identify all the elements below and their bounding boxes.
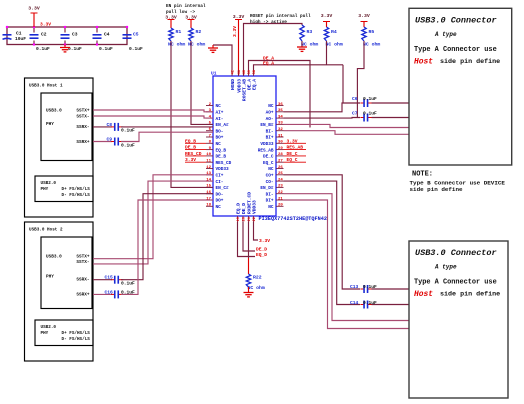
svg-text:USB3.0 Connector: USB3.0 Connector [415,15,497,25]
svg-text:SSRX-: SSRX- [76,278,89,283]
svg-text:R2: R2 [196,29,202,35]
svg-text:VDD33: VDD33 [260,142,274,147]
svg-text:PHY: PHY [41,331,49,336]
svg-text:DO-: DO- [216,192,224,197]
svg-text:0.1uF: 0.1uF [363,284,377,290]
svg-text:20: 20 [278,204,283,208]
svg-text:10uF: 10uF [15,36,26,42]
svg-text:0.1uF: 0.1uF [363,300,377,306]
svg-text:AO+: AO+ [266,111,274,116]
svg-text:C9: C9 [107,137,113,143]
svg-text:EN_B#: EN_B# [260,123,274,128]
svg-text:10: 10 [206,153,211,157]
svg-text:34: 34 [278,115,283,119]
svg-text:C8: C8 [107,122,113,128]
svg-text:R4: R4 [331,29,337,35]
svg-text:high -> active: high -> active [250,20,287,25]
svg-text:PHY: PHY [46,122,54,127]
svg-text:D- FS/HS/LS: D- FS/HS/LS [62,193,91,198]
svg-text:USB3.0 Host 2: USB3.0 Host 2 [29,228,63,233]
svg-text:RES_CD: RES_CD [216,161,232,166]
svg-text:27: 27 [278,160,283,164]
svg-text:0.1uF: 0.1uF [36,46,50,52]
svg-text:SSRX+: SSRX+ [76,140,90,145]
svg-text:HGND: HGND [230,79,236,90]
svg-text:22: 22 [278,191,283,195]
svg-text:DE_D: DE_D [256,247,267,253]
svg-text:3.3V: 3.3V [40,22,51,28]
svg-text:29: 29 [278,147,283,151]
svg-text:C13: C13 [350,284,359,290]
svg-text:0.1uF: 0.1uF [129,46,143,52]
svg-text:42: 42 [232,69,236,74]
svg-text:15: 15 [206,185,211,189]
svg-text:DI-: DI- [266,192,274,197]
svg-text:D+ FS/HS/LS: D+ FS/HS/LS [62,187,91,192]
svg-text:0.1uF: 0.1uF [363,96,377,102]
svg-text:18: 18 [206,204,211,208]
svg-text:VDD33: VDD33 [216,167,230,172]
svg-text:11: 11 [206,160,211,164]
svg-text:A type: A type [434,31,457,38]
svg-text:NC: NC [216,142,222,147]
svg-text:ROSET pin internal pull: ROSET pin internal pull [250,14,311,19]
svg-text:CO-: CO- [266,180,274,185]
svg-text:R1: R1 [176,29,182,35]
svg-text:DO+: DO+ [216,199,224,204]
svg-text:CI+: CI+ [216,174,224,179]
svg-text:RES_CD: RES_CD [185,151,202,157]
svg-text:EQ_B: EQ_B [216,148,227,153]
svg-text:USB3.0 Host 1: USB3.0 Host 1 [29,84,63,89]
svg-text:side pin define: side pin define [440,58,500,66]
svg-text:C15: C15 [105,275,114,281]
svg-text:VDD33: VDD33 [252,200,258,214]
svg-text:Host: Host [414,290,433,299]
svg-text:SSTX+: SSTX+ [76,255,90,260]
svg-text:C2: C2 [41,32,47,38]
svg-text:3.3V: 3.3V [287,138,298,144]
svg-text:BO+: BO+ [216,136,224,141]
svg-text:D+ FS/HS/LS: D+ FS/HS/LS [62,331,91,336]
svg-text:NC: NC [268,205,274,210]
svg-text:32: 32 [278,128,283,132]
svg-text:3.3V: 3.3V [358,13,370,19]
svg-text:CO+: CO+ [266,174,274,179]
svg-text:EQ_C: EQ_C [263,161,274,166]
svg-text:DE_C: DE_C [263,155,274,160]
svg-text:side pin define: side pin define [410,186,463,193]
svg-text:20: 20 [243,216,247,221]
svg-text:EQ_D: EQ_D [236,203,242,214]
svg-text:41: 41 [238,69,242,74]
svg-text:U1: U1 [211,71,217,77]
svg-text:21: 21 [248,216,252,221]
svg-text:SSRX-: SSRX- [76,125,89,130]
svg-text:EQ_B: EQ_B [185,138,196,144]
svg-text:3.3V: 3.3V [321,13,333,19]
svg-text:C3: C3 [72,32,78,38]
svg-text:PI3EQX7742ST2HE@TQFN42: PI3EQX7742ST2HE@TQFN42 [259,216,328,222]
svg-text:17: 17 [206,197,211,201]
svg-text:EN pin internal: EN pin internal [166,4,206,9]
svg-text:R22: R22 [253,275,262,281]
svg-text:C14: C14 [350,300,359,306]
svg-text:DE_C: DE_C [287,151,298,157]
svg-text:DE_B: DE_B [185,145,196,151]
svg-text:D- FS/HS/LS: D- FS/HS/LS [62,337,91,342]
svg-text:C1: C1 [16,31,22,37]
svg-text:A type: A type [434,264,457,271]
svg-text:SSTX-: SSTX- [76,260,89,265]
svg-text:NC ohm: NC ohm [363,42,380,48]
svg-text:BI-: BI- [266,129,274,134]
svg-text:3.3V: 3.3V [185,157,196,163]
svg-text:EQ_A: EQ_A [252,79,258,90]
svg-text:26: 26 [278,166,283,170]
svg-text:pull low ->: pull low -> [166,10,195,15]
svg-text:13: 13 [206,172,211,176]
svg-text:31: 31 [278,134,283,138]
svg-text:EQ_D: EQ_D [256,252,267,258]
svg-text:14: 14 [206,178,211,182]
svg-text:SSTX-: SSTX- [76,115,89,120]
svg-text:RES_AB: RES_AB [258,148,274,153]
svg-text:AI-: AI- [216,117,224,122]
svg-text:EN_A#: EN_A# [216,123,230,128]
svg-text:36: 36 [278,103,283,107]
svg-text:EN_D#: EN_D# [260,186,274,191]
svg-text:PHY: PHY [46,275,54,280]
svg-text:NC: NC [268,104,274,109]
svg-text:24: 24 [278,178,283,182]
svg-text:16: 16 [206,191,211,195]
svg-text:side pin define: side pin define [440,291,500,299]
svg-text:28: 28 [278,153,283,157]
svg-text:NC: NC [216,104,222,109]
svg-text:AO-: AO- [266,117,274,122]
svg-text:Type A Connector use: Type A Connector use [414,46,497,54]
svg-text:19: 19 [237,216,241,221]
svg-text:NOTE:: NOTE: [412,171,433,179]
svg-text:Type A Connector use: Type A Connector use [414,279,497,287]
svg-text:EN_C#: EN_C# [216,186,230,191]
svg-text:CI-: CI- [216,180,224,185]
svg-text:NC ohm: NC ohm [326,42,343,48]
svg-text:NC: NC [216,205,222,210]
svg-text:DI+: DI+ [266,199,274,204]
svg-text:Host: Host [414,57,433,66]
svg-text:C4: C4 [104,32,110,38]
svg-text:AI+: AI+ [216,111,224,116]
svg-text:3.3V: 3.3V [232,26,238,37]
svg-text:USB3.0: USB3.0 [46,255,62,260]
svg-text:BO-: BO- [216,129,224,134]
svg-text:USB3.0 Connector: USB3.0 Connector [415,248,497,258]
svg-text:3.3V: 3.3V [28,6,40,12]
svg-text:EQ_A: EQ_A [263,60,274,66]
svg-text:R5: R5 [369,29,375,35]
svg-text:0.1uF: 0.1uF [121,128,135,134]
svg-text:USB2.0: USB2.0 [41,181,57,186]
svg-text:C5: C5 [133,32,139,38]
svg-text:38: 38 [253,69,257,74]
svg-text:0.1uF: 0.1uF [99,46,113,52]
svg-text:30: 30 [278,141,283,145]
svg-text:21: 21 [278,197,283,201]
svg-text:C7: C7 [352,111,358,117]
svg-text:3.3V: 3.3V [259,238,270,244]
svg-text:C16: C16 [105,289,114,295]
svg-text:0.1uF: 0.1uF [363,111,377,117]
svg-text:25: 25 [278,172,283,176]
svg-text:C6: C6 [352,96,358,102]
svg-text:22: 22 [253,216,257,221]
svg-text:23: 23 [278,185,283,189]
svg-text:SSTX+: SSTX+ [76,109,90,114]
svg-text:0.1uF: 0.1uF [121,143,135,149]
svg-text:39: 39 [248,69,252,74]
svg-text:PHY: PHY [41,187,49,192]
svg-text:USB2.0: USB2.0 [41,325,57,330]
svg-text:0.1uF: 0.1uF [68,46,82,52]
svg-text:DE_B: DE_B [216,155,227,160]
svg-text:RES_AB: RES_AB [287,145,304,151]
svg-text:12: 12 [206,166,211,170]
svg-text:NC: NC [268,167,274,172]
svg-text:0.1uF: 0.1uF [121,281,135,287]
svg-text:R3: R3 [307,29,313,35]
svg-text:33: 33 [278,122,283,126]
svg-text:NC ohm: NC ohm [248,285,265,291]
svg-text:SSRX+: SSRX+ [76,293,90,298]
svg-text:BI+: BI+ [266,136,274,141]
svg-text:35: 35 [278,109,283,113]
svg-text:DE_D: DE_D [241,203,247,214]
svg-text:USB3.0: USB3.0 [46,109,62,114]
svg-text:40: 40 [243,69,247,74]
svg-text:0.1uF: 0.1uF [121,289,135,295]
svg-text:EQ_C: EQ_C [287,157,298,163]
